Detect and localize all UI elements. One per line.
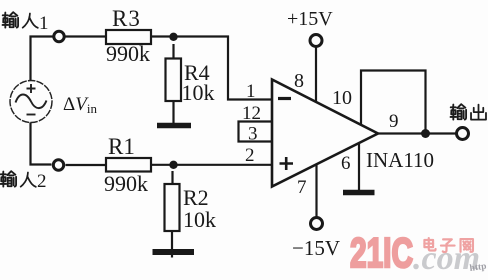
svg-text:10: 10	[332, 87, 352, 109]
svg-text:3: 3	[248, 124, 258, 145]
svg-text:R3: R3	[112, 6, 141, 31]
svg-text:990k: 990k	[104, 171, 148, 196]
svg-text:9: 9	[389, 111, 399, 132]
svg-text:1: 1	[39, 13, 49, 34]
svg-text:990k: 990k	[106, 41, 150, 66]
svg-text:1: 1	[246, 81, 256, 102]
svg-text:10k: 10k	[183, 207, 216, 232]
svg-text:7: 7	[297, 177, 307, 198]
svg-text:INA110: INA110	[366, 148, 434, 172]
svg-text:6: 6	[341, 153, 351, 174]
svg-text:R1: R1	[108, 134, 135, 159]
svg-text:+15V: +15V	[287, 8, 333, 30]
svg-text:2: 2	[245, 145, 255, 166]
svg-text:2: 2	[37, 171, 47, 192]
svg-text:−15V: −15V	[292, 236, 340, 260]
svg-text:10k: 10k	[182, 80, 215, 105]
svg-text:21IC: 21IC	[350, 229, 413, 276]
svg-text:8: 8	[294, 70, 304, 92]
svg-text:12: 12	[242, 103, 261, 124]
